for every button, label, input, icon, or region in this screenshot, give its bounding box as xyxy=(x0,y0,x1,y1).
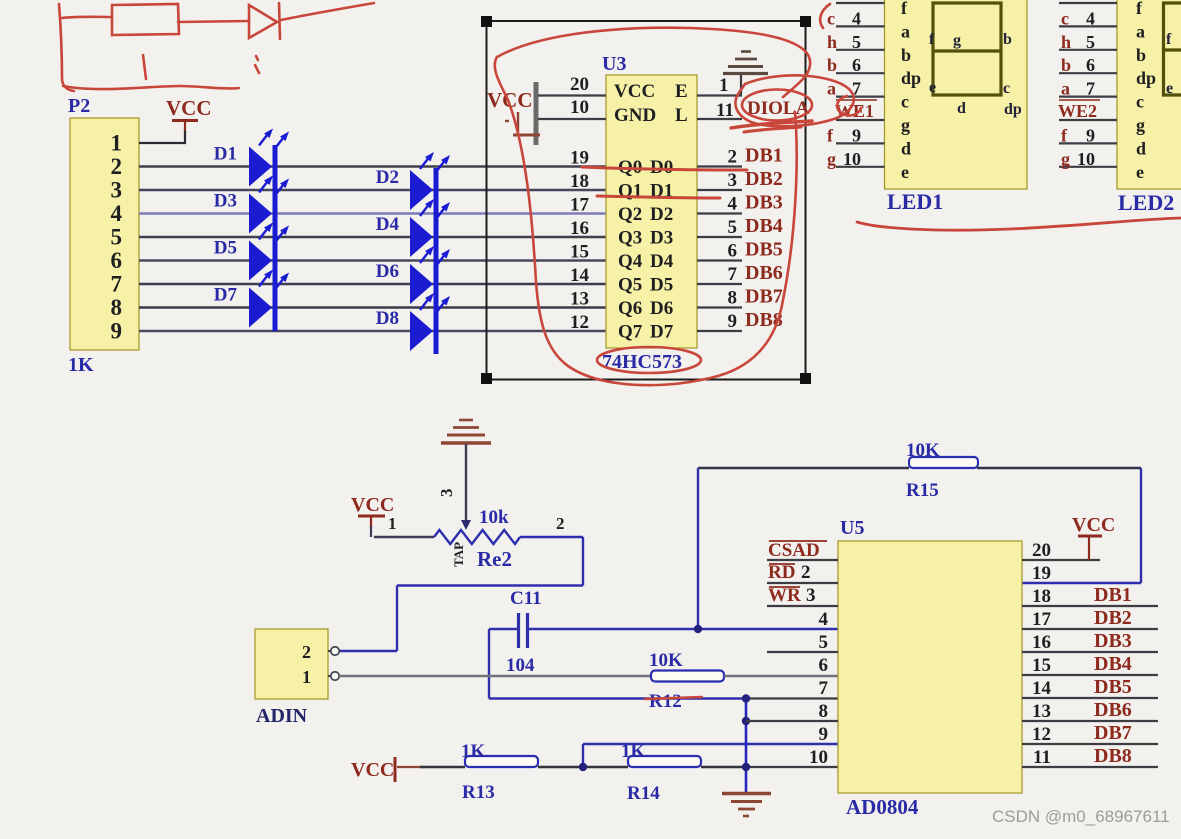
svg-text:Q6: Q6 xyxy=(618,298,642,319)
svg-text:7: 7 xyxy=(111,272,123,297)
wire P2 pin 3 to U3 xyxy=(139,189,606,191)
wire R13 to R14 xyxy=(538,766,628,768)
U5 pin 16 wire, net DB3 xyxy=(1022,651,1158,653)
resistor R13 1K xyxy=(465,756,538,767)
svg-text:DB4: DB4 xyxy=(745,215,783,237)
svg-text:10K: 10K xyxy=(649,650,683,671)
U5 pin 20 wire to VCC xyxy=(1022,559,1100,561)
wire C11 to pin7 net xyxy=(488,629,490,699)
LED2 segment glyph xyxy=(1164,3,1181,95)
svg-text:1: 1 xyxy=(388,514,397,533)
svg-text:6: 6 xyxy=(1086,55,1095,75)
svg-text:8: 8 xyxy=(111,295,123,320)
svg-text:3: 3 xyxy=(728,170,738,191)
svg-text:LED2: LED2 xyxy=(1118,190,1174,215)
svg-text:b: b xyxy=(901,45,911,65)
svg-text:6: 6 xyxy=(728,241,738,262)
U3 pin 5 wire, net DB4 xyxy=(697,236,742,238)
svg-text:D3: D3 xyxy=(650,228,673,249)
svg-text:DB2: DB2 xyxy=(745,168,783,190)
svg-text:D2: D2 xyxy=(650,204,673,225)
svg-text:a: a xyxy=(1061,79,1070,99)
red hand-drawn sketch: wire loop xyxy=(59,3,374,91)
svg-text:5: 5 xyxy=(852,32,861,52)
wire R14 to junction column xyxy=(701,766,746,768)
U5 pin 14 wire, net DB5 xyxy=(1022,697,1158,699)
U3 pin 20 wire xyxy=(538,94,606,96)
LED D8 xyxy=(410,293,450,351)
red annotation: ellipse around 74HC573 xyxy=(597,347,701,373)
svg-text:4: 4 xyxy=(852,8,861,28)
svg-text:f: f xyxy=(827,125,834,145)
potentiometer Re2 10k xyxy=(374,507,583,571)
U3 pin 4 wire, net DB3 xyxy=(697,212,742,214)
svg-text:g: g xyxy=(901,115,910,135)
svg-text:10: 10 xyxy=(570,97,589,118)
svg-text:Q4: Q4 xyxy=(618,251,643,272)
U5 pin 1 wire, net CSAD xyxy=(767,559,838,561)
svg-text:AD0804: AD0804 xyxy=(846,795,919,819)
LED cathode rail column 2 xyxy=(434,168,439,354)
svg-text:WR: WR xyxy=(768,585,801,606)
wire VCC to R13 xyxy=(420,766,465,768)
svg-text:9: 9 xyxy=(111,319,123,344)
svg-text:D8: D8 xyxy=(376,308,399,329)
ground (U3 pin 1) xyxy=(723,52,768,74)
U3 pin 2 wire, net DB1 xyxy=(697,165,742,167)
svg-text:f: f xyxy=(1061,125,1068,145)
svg-text:9: 9 xyxy=(1086,125,1095,145)
svg-text:6: 6 xyxy=(852,55,861,75)
svg-text:4: 4 xyxy=(1086,8,1095,28)
LED D6 xyxy=(410,246,450,304)
svg-text:c: c xyxy=(1136,92,1144,112)
svg-text:8: 8 xyxy=(819,701,829,722)
red annotation: underline strokes below DIOLA xyxy=(731,121,812,128)
junction at 746,767 xyxy=(742,763,750,771)
svg-text:17: 17 xyxy=(570,195,590,216)
svg-text:U3: U3 xyxy=(602,53,626,75)
U5 pin 8 wire xyxy=(746,720,838,722)
svg-text:R14: R14 xyxy=(627,783,660,804)
LED2 pin wire row 9 xyxy=(1059,142,1117,144)
red annotation: scribble at WE1 xyxy=(837,96,861,115)
svg-text:15: 15 xyxy=(1032,655,1051,676)
wire junction to U5 pin 10 xyxy=(746,766,838,768)
LED1 pin wire row 9 xyxy=(836,142,885,144)
LED1 pin wire row 3 xyxy=(836,2,885,4)
svg-text:14: 14 xyxy=(570,265,590,286)
red annotation: ellipse around DIOLA (small) xyxy=(742,90,812,121)
LED D2 xyxy=(410,152,450,210)
LED1 pin wire row 6 xyxy=(836,72,885,74)
wire junction to U5 pin 7 xyxy=(746,697,838,699)
svg-text:2: 2 xyxy=(801,562,811,583)
svg-text:c: c xyxy=(1061,8,1069,28)
svg-text:1: 1 xyxy=(111,131,123,156)
svg-text:9: 9 xyxy=(852,125,861,145)
power VCC bar (U3 pin 20) xyxy=(534,82,539,145)
svg-text:DB7: DB7 xyxy=(1094,722,1132,744)
svg-text:Q5: Q5 xyxy=(618,275,642,296)
svg-text:D7: D7 xyxy=(650,322,674,343)
svg-text:U5: U5 xyxy=(840,517,864,539)
svg-text:L: L xyxy=(675,105,688,126)
wire P2 pin 6 to U3 xyxy=(139,259,606,261)
wire P2 pin 2 to U3 xyxy=(139,165,606,167)
red annotation: ellipse around DIOLA (large, toward WE1) xyxy=(735,75,853,126)
svg-text:a: a xyxy=(901,21,910,41)
svg-text:g: g xyxy=(827,149,836,169)
svg-text:19: 19 xyxy=(1032,563,1051,584)
svg-text:5: 5 xyxy=(819,632,829,653)
svg-text:1K: 1K xyxy=(461,741,486,762)
U3 pin 7 wire, net DB6 xyxy=(697,283,742,285)
junction at 746,698.5 xyxy=(742,694,750,702)
red annotation: strike through Q0 D0 / DB1 xyxy=(582,167,747,170)
U5 pin 12 wire, net DB7 xyxy=(1022,743,1158,745)
junction column wire (pins 7,8,10 to ground) xyxy=(745,699,748,793)
wire P2 pin1 to VCC xyxy=(139,142,186,144)
LED D7 xyxy=(249,270,289,328)
svg-text:5: 5 xyxy=(1086,32,1095,52)
svg-text:D2: D2 xyxy=(376,167,399,188)
svg-text:f: f xyxy=(929,31,935,48)
svg-text:Q3: Q3 xyxy=(618,228,642,249)
resistor (sketch) xyxy=(112,4,179,35)
svg-text:DB1: DB1 xyxy=(1094,584,1132,606)
LED1 pin wire row 5 xyxy=(836,49,885,51)
svg-text:dp: dp xyxy=(1136,68,1156,88)
svg-text:WE2: WE2 xyxy=(1058,101,1097,121)
svg-text:g: g xyxy=(1136,115,1145,135)
svg-text:g: g xyxy=(953,32,961,49)
svg-text:15: 15 xyxy=(570,242,589,263)
svg-text:3: 3 xyxy=(111,178,123,203)
junction at 583,767 xyxy=(579,763,587,771)
ground (above Re2 wiper) xyxy=(441,420,491,443)
LED D4 xyxy=(410,199,450,257)
wire ADIN pin1 to U5 pin6 xyxy=(339,675,651,678)
svg-text:DB4: DB4 xyxy=(1094,653,1132,675)
svg-text:GND: GND xyxy=(614,105,656,126)
LED cathode rail column 1 xyxy=(273,145,278,331)
U5 pin 17 wire, net DB2 xyxy=(1022,628,1158,630)
svg-text:3: 3 xyxy=(806,585,816,606)
svg-text:e: e xyxy=(1166,80,1173,97)
svg-text:D6: D6 xyxy=(376,261,399,282)
svg-text:2: 2 xyxy=(556,514,565,533)
svg-text:7: 7 xyxy=(1086,79,1095,99)
U3 pin 9 wire, net DB8 xyxy=(697,330,742,332)
svg-text:e: e xyxy=(929,79,936,96)
svg-text:c: c xyxy=(1003,80,1010,97)
svg-text:1: 1 xyxy=(719,75,729,96)
svg-text:D4: D4 xyxy=(650,251,674,272)
svg-text:19: 19 xyxy=(570,148,589,169)
svg-text:Re2: Re2 xyxy=(477,547,512,571)
ground (bottom, U5) xyxy=(722,794,771,817)
svg-text:11: 11 xyxy=(716,100,734,121)
svg-text:CSAD: CSAD xyxy=(768,540,820,561)
svg-text:13: 13 xyxy=(1032,701,1051,722)
svg-text:7: 7 xyxy=(819,678,829,699)
svg-text:2: 2 xyxy=(111,154,123,179)
LED1 pin wire row 7 xyxy=(836,95,885,97)
red annotation: small mark near LED1 top xyxy=(820,4,830,28)
svg-text:18: 18 xyxy=(570,171,589,192)
svg-text:d: d xyxy=(1136,138,1146,158)
LED2 pin wire row 6 xyxy=(1059,72,1117,74)
svg-text:dp: dp xyxy=(1004,101,1022,118)
svg-text:CSDN @m0_68967611: CSDN @m0_68967611 xyxy=(992,807,1170,826)
svg-text:D3: D3 xyxy=(214,191,237,212)
svg-text:DB1: DB1 xyxy=(745,145,783,167)
svg-text:16: 16 xyxy=(570,218,589,239)
svg-text:dp: dp xyxy=(901,68,921,88)
svg-text:VCC: VCC xyxy=(166,96,212,120)
svg-text:D5: D5 xyxy=(650,275,673,296)
U3 pin 3 wire, net DB2 xyxy=(697,189,742,191)
U5 pin 3 wire, net WR xyxy=(767,605,838,607)
red annotation: strike through R12 xyxy=(645,697,702,699)
svg-text:h: h xyxy=(1061,32,1071,52)
red annotation: swoosh under LED1/LED2 xyxy=(857,218,1181,230)
U5 pin 11 wire, net DB8 xyxy=(1022,766,1158,768)
connector ADIN xyxy=(255,629,339,727)
svg-text:g: g xyxy=(1061,149,1070,169)
svg-text:D6: D6 xyxy=(650,298,673,319)
ADC U5 AD0804 xyxy=(838,541,1022,793)
U5 pin 2 wire, net RD xyxy=(767,582,838,584)
resistor R12 10K xyxy=(651,671,724,682)
svg-text:4: 4 xyxy=(728,194,738,215)
svg-text:TAP: TAP xyxy=(451,542,466,567)
svg-text:b: b xyxy=(1003,31,1012,48)
U3 pin 10 wire xyxy=(538,118,606,120)
svg-text:16: 16 xyxy=(1032,632,1051,653)
LED1 pin wire row 10 xyxy=(836,166,885,168)
svg-text:c: c xyxy=(827,8,835,28)
LED2 pin wire row 7 xyxy=(1059,95,1117,97)
LED1 segment glyph xyxy=(933,3,1001,95)
svg-text:13: 13 xyxy=(570,289,589,310)
svg-text:9: 9 xyxy=(728,311,738,332)
svg-text:E: E xyxy=(675,81,688,102)
svg-text:2: 2 xyxy=(302,642,311,662)
svg-text:6: 6 xyxy=(111,248,123,273)
wire P2 pin 9 to U3 xyxy=(139,330,606,332)
LED D5 xyxy=(249,223,289,281)
svg-text:DB6: DB6 xyxy=(745,262,783,284)
svg-text:d: d xyxy=(901,138,911,158)
svg-text:VCC: VCC xyxy=(351,494,394,516)
resistor R15 10K xyxy=(698,467,909,469)
diode (sketch) xyxy=(249,5,277,38)
svg-text:2: 2 xyxy=(728,147,738,168)
U3 pin 6 wire, net DB5 xyxy=(697,259,742,261)
svg-text:WE1: WE1 xyxy=(835,101,874,121)
svg-text:1K: 1K xyxy=(68,354,94,376)
svg-text:12: 12 xyxy=(570,312,589,333)
LED2 pin wire row 5 xyxy=(1059,49,1117,51)
svg-text:b: b xyxy=(1136,45,1146,65)
U5 pin 5 stub xyxy=(767,651,838,653)
wire R15 right to U5 pin19 xyxy=(1140,468,1142,583)
svg-text:DB5: DB5 xyxy=(1094,676,1132,698)
svg-text:f: f xyxy=(1136,0,1143,18)
ground mark (U3 pin 10) xyxy=(505,112,540,135)
svg-text:R13: R13 xyxy=(462,782,495,803)
junction at 746,721 xyxy=(742,717,750,725)
svg-text:P2: P2 xyxy=(68,95,90,117)
LED1 pin wire row 4 xyxy=(836,25,885,27)
svg-text:Q7: Q7 xyxy=(618,322,643,343)
svg-text:h: h xyxy=(827,32,837,52)
svg-text:ADIN: ADIN xyxy=(256,705,308,727)
capacitor C11 104 xyxy=(489,588,698,676)
svg-text:10: 10 xyxy=(843,149,861,169)
svg-text:20: 20 xyxy=(570,74,589,95)
svg-text:7: 7 xyxy=(728,264,738,285)
power VCC (P2 pin 1) xyxy=(139,96,212,143)
LED2 pin wire row 3 xyxy=(1059,2,1117,4)
wire P2 pin 5 to U3 xyxy=(139,236,606,238)
svg-text:Q2: Q2 xyxy=(618,204,642,225)
U5 pin 13 wire, net DB6 xyxy=(1022,720,1158,722)
svg-text:DB6: DB6 xyxy=(1094,699,1132,721)
wire pin4 net to U5 pin 4 xyxy=(698,628,838,630)
LED D1 xyxy=(249,129,289,187)
LED1 pin wire row 8 xyxy=(836,119,885,121)
svg-text:4: 4 xyxy=(111,201,123,226)
svg-text:DB7: DB7 xyxy=(745,286,783,308)
svg-text:VCC: VCC xyxy=(614,81,655,102)
latch U3 74HC573 xyxy=(602,53,697,373)
connector P2 xyxy=(68,95,139,376)
svg-text:3: 3 xyxy=(437,489,456,498)
svg-text:DB5: DB5 xyxy=(745,239,783,261)
svg-text:e: e xyxy=(1136,162,1144,182)
LED2 pin wire row 10 xyxy=(1059,166,1117,168)
svg-text:D1: D1 xyxy=(214,144,237,165)
svg-text:RD: RD xyxy=(768,562,795,583)
svg-text:d: d xyxy=(957,100,966,117)
LED2 pin wire row 4 xyxy=(1059,25,1117,27)
svg-text:D4: D4 xyxy=(376,214,400,235)
svg-text:e: e xyxy=(901,162,909,182)
7-segment display LED1 xyxy=(885,0,1028,189)
LED D3 xyxy=(249,176,289,234)
svg-text:DB2: DB2 xyxy=(1094,607,1132,629)
svg-text:12: 12 xyxy=(1032,724,1051,745)
svg-text:104: 104 xyxy=(506,655,535,676)
svg-text:10K: 10K xyxy=(906,440,940,461)
svg-text:R15: R15 xyxy=(906,480,939,501)
svg-text:5: 5 xyxy=(728,217,738,238)
svg-text:8: 8 xyxy=(728,288,738,309)
svg-text:10k: 10k xyxy=(479,507,509,528)
LED2 pin wire row 8 xyxy=(1059,119,1117,121)
svg-text:LED1: LED1 xyxy=(887,189,943,214)
svg-text:20: 20 xyxy=(1032,540,1051,561)
svg-text:VCC: VCC xyxy=(351,759,394,781)
svg-text:10: 10 xyxy=(809,747,828,768)
svg-text:D5: D5 xyxy=(214,238,237,259)
U5 pin 18 wire, net DB1 xyxy=(1022,605,1158,607)
svg-text:f: f xyxy=(901,0,908,18)
svg-text:a: a xyxy=(1136,21,1145,41)
svg-text:b: b xyxy=(1061,55,1071,75)
svg-text:11: 11 xyxy=(1033,747,1051,768)
svg-text:6: 6 xyxy=(819,655,829,676)
svg-text:10: 10 xyxy=(1077,149,1095,169)
svg-text:DB8: DB8 xyxy=(1094,745,1132,767)
svg-text:D7: D7 xyxy=(214,285,238,306)
svg-text:18: 18 xyxy=(1032,586,1051,607)
svg-text:c: c xyxy=(901,92,909,112)
resistor R14 1K xyxy=(628,756,701,767)
wire ground to Re2 wiper xyxy=(465,444,467,524)
wire P2 pin 4 to U3 xyxy=(139,212,606,214)
svg-text:14: 14 xyxy=(1032,678,1052,699)
junction at 698,629 xyxy=(694,625,702,633)
svg-text:R12: R12 xyxy=(649,691,682,712)
svg-text:DB3: DB3 xyxy=(745,192,783,214)
U3 pin 11 wire, net DIOLA xyxy=(697,118,742,120)
svg-text:C11: C11 xyxy=(510,588,542,609)
svg-text:b: b xyxy=(827,55,837,75)
svg-text:5: 5 xyxy=(111,225,123,250)
svg-text:17: 17 xyxy=(1032,609,1052,630)
U3 pin 1 wire to ground xyxy=(697,94,742,96)
wire R13/R14 junction up to U5 pin9 xyxy=(582,744,584,767)
svg-text:9: 9 xyxy=(819,724,829,745)
7-segment display LED2 xyxy=(1117,0,1181,189)
svg-text:D0: D0 xyxy=(650,157,673,178)
svg-text:DB3: DB3 xyxy=(1094,630,1132,652)
svg-text:1: 1 xyxy=(302,667,311,687)
wire P2 pin 7 to U3 xyxy=(139,283,606,285)
red annotation: big loop around U3 xyxy=(495,4,1181,699)
wire P2 pin 8 to U3 xyxy=(139,306,606,308)
U5 pin 15 wire, net DB4 xyxy=(1022,674,1158,676)
selection frame around U3 xyxy=(487,21,806,380)
svg-text:VCC: VCC xyxy=(1072,514,1115,536)
svg-text:4: 4 xyxy=(819,609,829,630)
wire Re2 pin2 to ADIN pin2 xyxy=(582,537,584,586)
U3 pin 8 wire, net DB7 xyxy=(697,306,742,308)
red annotation: strike through Q1 D1 xyxy=(597,196,720,198)
wire R15 left down to pin4 net xyxy=(697,468,699,629)
svg-text:f: f xyxy=(1166,31,1172,48)
